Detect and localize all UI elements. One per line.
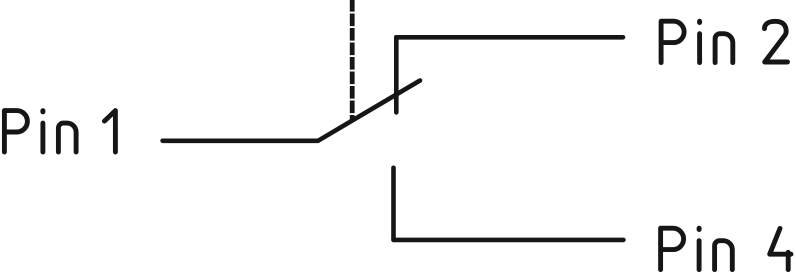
node Pin 2 label (661, 21, 787, 62)
wire Pin 4 lead (394, 238, 624, 243)
switch S1 movable contact lever (318, 81, 420, 141)
wire Pin 1 lead (163, 139, 318, 144)
wire Pin 2 fixed contact stub (394, 37, 399, 112)
node Pin 1 label (4, 111, 115, 152)
node Pin 4 label (661, 228, 791, 269)
wire Pin 2 lead (396, 35, 623, 40)
switch S1 actuator (dashed plunger line) (350, 0, 355, 120)
wire Pin 4 fixed contact stub (391, 168, 396, 240)
